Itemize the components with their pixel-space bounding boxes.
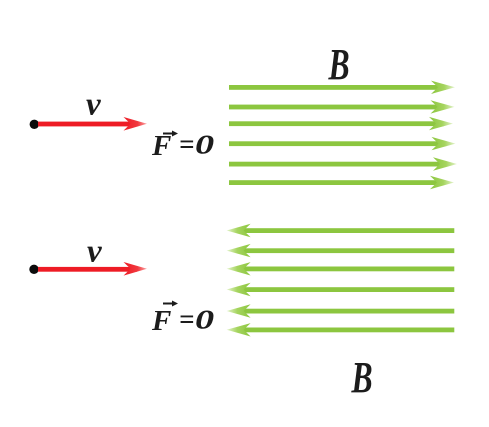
- field line B9 (bottom, leftward): [227, 262, 455, 275]
- label B (top): [328, 41, 350, 89]
- svg-text:B: B: [328, 41, 350, 89]
- vector arrow over F (top): [163, 133, 174, 135]
- field line B8 (bottom, leftward): [227, 244, 455, 257]
- svg-text:B: B: [351, 354, 373, 402]
- svg-text:F: F: [151, 130, 171, 162]
- velocity arrow v2 head (bottom): [124, 262, 148, 276]
- velocity arrow v1 head (top): [124, 117, 148, 131]
- svg-text:0: 0: [195, 305, 214, 335]
- field line B12 (bottom, leftward): [227, 323, 455, 336]
- svg-text:=: =: [179, 129, 194, 159]
- field line B11 (bottom, leftward): [227, 304, 455, 317]
- svg-text:v: v: [86, 87, 101, 123]
- svg-text:0: 0: [195, 130, 214, 160]
- charge dot Q2 (bottom): [29, 265, 38, 274]
- field line B4 (top, rightward): [229, 137, 456, 150]
- svg-text:F: F: [151, 305, 171, 337]
- field line B2 (top, rightward): [229, 100, 455, 113]
- svg-text:v: v: [87, 234, 102, 270]
- field line B1 (top, rightward): [229, 81, 455, 94]
- vector arrow over F (bottom): [163, 303, 174, 305]
- field line B5 (top, rightward): [229, 157, 457, 170]
- charge dot Q1 (top): [30, 120, 39, 129]
- svg-text:=: =: [179, 304, 194, 334]
- velocity arrow v2 shaft (bottom, red): [38, 267, 137, 272]
- velocity arrow v1 shaft (top, red): [38, 122, 137, 127]
- field line B7 (bottom, leftward): [227, 224, 455, 237]
- label B (bottom): [351, 354, 373, 402]
- field line B6 (top, rightward): [229, 176, 454, 189]
- field line B3 (top, rightward): [229, 117, 453, 130]
- field line B10 (bottom, leftward): [227, 283, 455, 296]
